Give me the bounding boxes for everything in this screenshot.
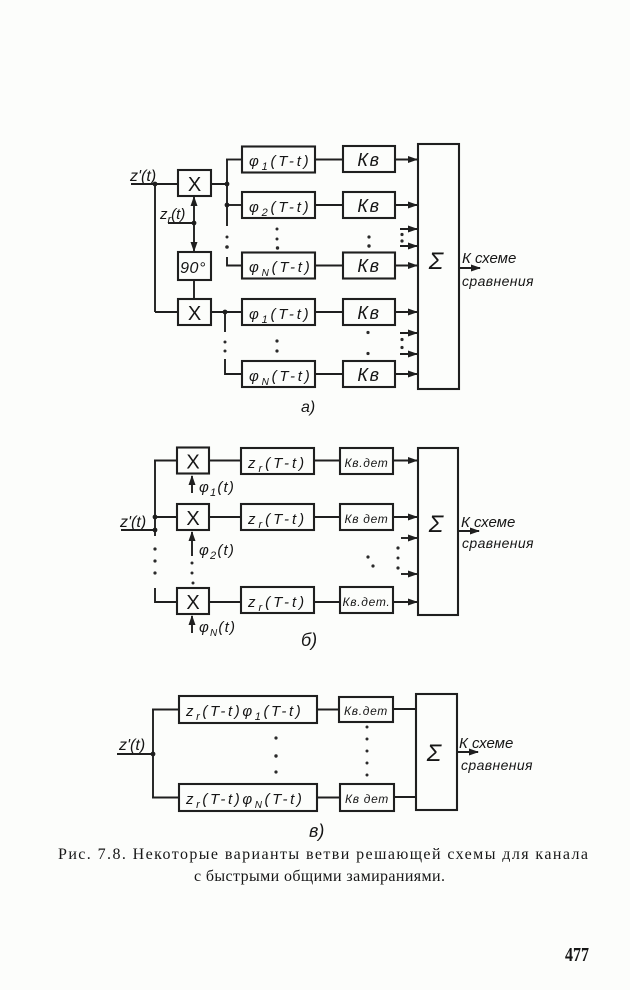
box KV row4 <box>343 299 395 325</box>
dotted arrows rows4-5 <box>400 333 417 354</box>
label z'(t) input C <box>118 737 145 754</box>
svg-text:в): в) <box>309 821 324 841</box>
wire row2 stub B <box>155 516 177 518</box>
wire row2 stub C <box>152 797 179 799</box>
box KV row3 <box>343 253 395 279</box>
caption line 1 <box>58 846 588 863</box>
svg-text:Рис. 7.8. Некоторые варианты в: Рис. 7.8. Некоторые варианты ветви решаю… <box>58 846 588 863</box>
node zr junction <box>192 221 197 226</box>
box zr-phiN row2 C <box>179 784 317 811</box>
label z'(t) input B <box>119 514 146 531</box>
svg-text:Σ: Σ <box>426 740 443 767</box>
svg-text:Кв: Кв <box>357 303 380 323</box>
wire arrow down into 90 <box>193 223 195 251</box>
arrow phiN input B <box>192 616 236 639</box>
wire hook row5 <box>225 359 242 374</box>
node z' junction B <box>153 528 158 533</box>
wire z' lead C <box>117 753 153 755</box>
dotted continuation left B <box>153 547 156 574</box>
svg-text:X: X <box>186 592 199 614</box>
svg-text:X: X <box>188 303 201 325</box>
wire left vertical A <box>154 184 156 312</box>
box zr-phi1 row1 C <box>179 696 317 723</box>
svg-text:Σ: Σ <box>428 511 445 538</box>
label K scheme B <box>461 514 534 551</box>
box zr row3 B <box>241 587 314 614</box>
box phi row2 <box>242 192 315 219</box>
ellipsis dots between rows A <box>275 228 370 356</box>
svg-text:Кв.дет.: Кв.дет. <box>343 595 391 609</box>
svg-text:сравнения: сравнения <box>462 273 534 289</box>
node row2 junction <box>225 203 230 208</box>
label K scheme C <box>459 735 533 773</box>
arrows KVdet to Sigma B <box>393 461 417 603</box>
box KVdet row1 B <box>340 448 393 474</box>
wire arrow up into X1 <box>193 197 195 223</box>
ellipsis dots between KVdet B <box>366 555 374 567</box>
box KV row2 <box>343 192 395 218</box>
svg-text:477: 477 <box>565 944 589 966</box>
output arrow B <box>458 530 479 532</box>
label b) <box>301 630 317 650</box>
summator Sigma C <box>416 694 457 810</box>
box KV row1 <box>343 146 395 172</box>
svg-text:Кв: Кв <box>357 196 380 216</box>
node X1 out junction <box>225 182 230 187</box>
ellipsis dots C <box>274 726 368 777</box>
multiplier X1 <box>178 170 211 196</box>
boxes phi row1 <box>242 147 315 174</box>
output arrow C <box>457 751 478 753</box>
box phi row5 <box>242 361 315 388</box>
wire 90 to X2 <box>193 280 195 299</box>
box KVdet row2 C <box>340 784 394 811</box>
svg-text:X: X <box>186 452 199 474</box>
box phi row4 <box>242 299 315 326</box>
svg-text:б): б) <box>301 630 317 650</box>
wire row1 stub <box>226 159 242 161</box>
wire z' lead B <box>121 529 155 531</box>
arrow phi1 input B <box>192 476 235 499</box>
wire left vertical C <box>152 710 154 798</box>
dotted continuation upper <box>225 236 229 249</box>
label zr(t) <box>159 206 185 226</box>
node z' junction C <box>151 752 156 757</box>
arrow phi2 input B <box>192 532 235 562</box>
svg-text:X: X <box>186 508 199 530</box>
svg-text:Σ: Σ <box>428 248 445 275</box>
wire lower distribution vertical <box>224 312 226 332</box>
node junction z' A <box>153 182 158 187</box>
label v) <box>309 821 324 841</box>
node X2 out junction <box>223 310 228 315</box>
svg-text:Кв дет: Кв дет <box>344 512 388 526</box>
svg-text:К схеме: К схеме <box>461 514 515 531</box>
wires phi to KV <box>315 160 343 375</box>
svg-text:Кв.дет: Кв.дет <box>344 704 388 718</box>
wire z' lead A <box>131 183 178 185</box>
svg-text:90°: 90° <box>180 260 206 277</box>
svg-text:Кв: Кв <box>357 150 380 170</box>
svg-text:z'(t): z'(t) <box>118 737 145 754</box>
box KVdet row3 B <box>340 587 393 613</box>
wire distribution vertical upper <box>226 160 228 227</box>
page number 477 <box>565 944 589 966</box>
output arrow A <box>459 267 480 269</box>
wire hook row3 B <box>155 588 177 602</box>
wire to X2 A <box>155 311 178 313</box>
multiplier X row1 B <box>177 448 209 474</box>
svg-text:Кв дет: Кв дет <box>345 792 389 806</box>
dotted arrows rows2-3 <box>400 229 417 246</box>
multiplier X row3 B <box>177 588 209 614</box>
wires KVdet to Sigma C <box>393 709 416 797</box>
wires zr to KVdet B <box>314 461 340 603</box>
wire row2 stub <box>227 204 242 206</box>
summator Sigma B <box>418 448 458 615</box>
box KVdet row2 B <box>340 504 393 530</box>
svg-text:X: X <box>188 174 201 196</box>
svg-text:Кв.дет: Кв.дет <box>344 456 388 470</box>
box KV row5 <box>343 361 395 387</box>
multiplier X row2 B <box>177 504 209 530</box>
multiplier X2 <box>178 299 211 325</box>
wire X1 output <box>211 183 228 185</box>
arrows KV to Sigma <box>395 160 417 375</box>
summator Sigma A <box>418 144 459 389</box>
wire row1 stub C <box>152 709 179 711</box>
svg-text:z'(t): z'(t) <box>119 514 146 531</box>
dotted continuation lower <box>224 341 227 353</box>
dotted arrows B <box>396 538 417 574</box>
wire X2 output row4 <box>211 311 242 313</box>
wire hook row3 <box>227 257 242 266</box>
box KVdet row1 C <box>339 697 393 722</box>
svg-text:Кв: Кв <box>357 256 380 276</box>
svg-text:сравнения: сравнения <box>462 535 534 551</box>
svg-text:сравнения: сравнения <box>461 757 533 773</box>
label K scheme A <box>462 250 534 289</box>
node row2 junction B <box>153 515 158 520</box>
svg-text:Кв: Кв <box>357 365 380 385</box>
label z'(t) input A <box>129 168 156 185</box>
box zr row2 B <box>241 504 314 531</box>
label a) <box>301 399 315 416</box>
wire left vertical B <box>154 461 156 537</box>
svg-text:а): а) <box>301 399 315 416</box>
svg-text:с быстрыми общими замираниями.: с быстрыми общими замираниями. <box>194 868 445 885</box>
svg-text:z'(t): z'(t) <box>129 168 156 185</box>
wire zr lead <box>168 222 196 224</box>
wires X to zr B <box>209 461 241 603</box>
wire row1 corner B <box>154 460 177 462</box>
caption line 2 <box>194 868 445 885</box>
box zr row1 B <box>241 448 314 475</box>
svg-text:К схеме: К схеме <box>462 250 516 267</box>
box phi row3 <box>242 253 315 280</box>
phase shifter 90deg <box>178 252 211 280</box>
wires boxes to KVdet C <box>317 710 340 798</box>
svg-text:К схеме: К схеме <box>459 735 513 752</box>
dotted phi column B <box>191 562 195 585</box>
